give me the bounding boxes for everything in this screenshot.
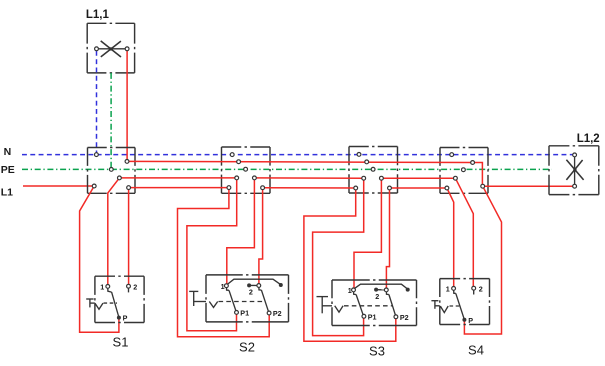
svg-text:P2: P2 <box>273 309 282 318</box>
terminal J2 traveler top out <box>253 176 257 180</box>
lamp L1,1 outline box <box>87 23 134 73</box>
S4 contact stub 2 <box>473 290 475 294</box>
junction lamp L1,1 center <box>109 47 112 50</box>
wire J4 to lamp L1,2 (red) <box>483 185 573 187</box>
wire traveler top J3-J4 <box>381 177 455 179</box>
S2 lever 2 <box>261 290 268 311</box>
S3 lever 2 <box>389 295 396 316</box>
svg-text:S3: S3 <box>369 344 385 359</box>
wire traveler top J1-J2 <box>119 177 236 179</box>
terminal S3-2 <box>384 288 388 292</box>
S2 contact dot right <box>279 283 283 287</box>
terminal J2 N <box>230 153 234 157</box>
terminal J1 N <box>95 153 99 157</box>
wire traveler top J2-J3 <box>254 177 363 179</box>
terminal J2 traveler bottom out <box>261 186 265 190</box>
terminal J3 lamp line <box>365 160 369 164</box>
svg-text:2: 2 <box>249 288 253 297</box>
svg-text:1: 1 <box>446 285 450 294</box>
wire J1 to S1 terminal 2 <box>128 188 130 286</box>
wire J2 to S2 terminal 2 <box>259 188 263 286</box>
S4 manual actuator <box>431 300 438 302</box>
S1 manual actuator <box>86 298 93 300</box>
wire traveler bottom J2-J3 <box>263 187 356 189</box>
S2 bridge contact wire <box>228 279 281 285</box>
S3 contact dot right <box>406 288 410 292</box>
S4 spring notch <box>440 306 448 313</box>
wire switched-line drop from lamp L1,1 (red) <box>126 51 128 160</box>
svg-text:2: 2 <box>133 283 137 292</box>
terminal J3 traveler bottom out <box>388 186 392 190</box>
terminal S3-1 <box>352 288 356 292</box>
S4 lever <box>456 293 464 318</box>
wire lamp L1,1 internal link <box>98 48 125 50</box>
wire S4 terminal P to J4 lamp node <box>464 186 501 334</box>
terminal J3 traveler bottom in <box>354 186 358 190</box>
terminal S1-P <box>117 316 121 320</box>
terminal J3 PE <box>371 167 375 171</box>
switch S1 outline box <box>95 276 144 322</box>
svg-text:P: P <box>468 316 473 325</box>
terminal J3 N <box>357 153 361 157</box>
junction box J3 <box>349 147 398 194</box>
svg-text:L1: L1 <box>1 187 13 199</box>
svg-text:1: 1 <box>100 283 104 292</box>
wire lamp feed line J1-J4 (red) <box>127 161 473 162</box>
switch S2 outline box <box>206 275 289 322</box>
S3 manual actuator <box>317 296 329 298</box>
S1 actuator link <box>90 302 95 304</box>
S3 contact stub 1 <box>354 292 357 295</box>
svg-text:2: 2 <box>479 284 483 293</box>
net L1 bus (red) <box>23 185 94 187</box>
terminal S1-2 <box>127 284 131 288</box>
terminal J4 traveler top in <box>454 176 458 180</box>
svg-text:P: P <box>123 314 128 323</box>
S2 link dot2 wire <box>250 284 258 286</box>
terminal S3-P1 <box>362 314 366 318</box>
svg-text:PE: PE <box>1 164 15 176</box>
net N bus (blue dashed) <box>22 154 573 156</box>
switch S3 outline box <box>332 280 417 326</box>
lamp L1,1 cross symbol <box>101 41 121 57</box>
lamp L1,2 cross symbol <box>566 160 583 180</box>
junction box J2 <box>222 147 271 193</box>
svg-text:S4: S4 <box>468 342 484 357</box>
terminal S1-1 <box>106 285 110 289</box>
terminal J2 traveler top in <box>235 176 239 180</box>
terminal J3 traveler top in <box>362 176 366 180</box>
wire traveler bottom J3-J4 <box>390 187 447 189</box>
S2 lever 1 <box>229 290 236 311</box>
S1 mechanical link dashed <box>104 302 118 304</box>
S3 mechanical link dashed <box>344 305 392 307</box>
terminal J1 traveler bottom <box>127 186 131 190</box>
terminal S2-P2 <box>267 311 271 315</box>
S3 link dot2 wire <box>377 289 384 291</box>
terminal S4-2 <box>472 286 476 290</box>
S3 actuator link <box>322 305 332 307</box>
svg-text:L1,2: L1,2 <box>577 133 600 145</box>
svg-text:N: N <box>4 146 12 158</box>
svg-text:L1,1: L1,1 <box>86 9 110 21</box>
wire J4 to S4 terminal 1 <box>447 188 454 288</box>
S4 mechanical link dashed <box>450 305 460 307</box>
terminal S4-P <box>462 318 466 322</box>
wire J4 lamp-line down link <box>473 163 483 187</box>
terminal J4 N <box>450 153 454 157</box>
S3 bridge contact wire <box>355 284 408 289</box>
S4 contact stub 1 <box>454 290 456 293</box>
S2 contact stub 1 <box>227 288 230 291</box>
svg-text:2: 2 <box>375 292 379 301</box>
terminal S4-1 <box>452 287 456 291</box>
terminal J2 PE <box>244 167 248 171</box>
terminal J2 lamp line <box>237 160 241 164</box>
svg-text:S2: S2 <box>239 340 255 355</box>
terminal S3-P2 <box>394 315 398 319</box>
terminal lamp L1,1 right <box>125 47 129 51</box>
wire J2 to S2 terminal P1 <box>187 178 237 331</box>
terminal J1 traveler top <box>118 176 122 180</box>
wire J1 to S1 terminal 1 <box>108 178 120 286</box>
wire J2 to S2 terminal P2 <box>178 188 270 337</box>
terminal J4 traveler bottom in <box>445 186 449 190</box>
S1 contact stub 2 <box>128 288 130 292</box>
svg-text:P2: P2 <box>400 313 409 322</box>
terminal S2-P1 <box>235 311 239 315</box>
S1 spring notch <box>95 303 103 309</box>
terminal J2 traveler bottom in <box>227 186 231 190</box>
wire PE drop from lamp L1,1 (green dash-dot) <box>110 73 112 168</box>
wire J3 to S3 terminal P1 <box>313 178 364 335</box>
terminal J3 traveler top out <box>380 176 384 180</box>
terminal lamp L1,1 left <box>95 47 99 51</box>
S3 spring notch <box>335 306 343 312</box>
S2 contact stub 2 <box>259 287 262 290</box>
S2 contact dot 2 <box>247 283 251 287</box>
S2 mechanical link dashed <box>219 301 265 303</box>
switch S4 outline box <box>440 279 490 325</box>
svg-text:P1: P1 <box>368 313 377 322</box>
terminal J4 switched line out <box>481 184 485 188</box>
junction lamp L1,2 center <box>573 168 576 171</box>
S2 spring notch <box>209 302 217 308</box>
wire N drop from lamp L1,1 (blue dashed) <box>96 51 98 153</box>
terminal J4 PE <box>462 168 466 172</box>
S1 contact stub 1 <box>108 288 112 292</box>
terminal S2-2 <box>257 284 261 288</box>
wire J3 to S3 terminal P2 <box>304 188 396 341</box>
S1 lever <box>112 292 119 316</box>
terminal S2-1 <box>225 284 229 288</box>
wire J2 to S2 terminal 1 <box>227 178 255 286</box>
junction box J1 <box>88 148 136 194</box>
wire J3 to S3 terminal 1 <box>354 178 381 290</box>
S2 manual actuator <box>189 290 198 292</box>
wire J3 to S3 terminal 2 <box>386 188 389 290</box>
wire traveler bottom J1-J2 <box>129 187 229 189</box>
svg-text:P1: P1 <box>240 309 249 318</box>
terminal lamp L1,2 bottom <box>573 184 577 188</box>
wire L1 phase J1 to S1 terminal P <box>80 186 119 332</box>
S3 contact stub 2 <box>386 292 389 295</box>
S2 actuator link <box>194 301 206 303</box>
S3 lever 1 <box>356 295 363 315</box>
terminal J1 lamp line <box>125 160 129 164</box>
wire J4 to S4 terminal 2 <box>455 178 473 288</box>
S4 actuator link <box>435 305 440 307</box>
S3 contact dot 2 <box>374 288 378 292</box>
net PE bus (green dash-dot) <box>22 168 552 170</box>
svg-text:S1: S1 <box>113 335 129 350</box>
junction box J4 <box>440 148 488 194</box>
terminal J1 PE <box>109 168 113 172</box>
terminal J4 lamp line <box>471 161 475 165</box>
lamp L1,2 outline box <box>549 146 599 195</box>
terminal lamp L1,2 top <box>573 153 577 157</box>
wire lamp L1,2 internal link <box>574 157 576 184</box>
terminal J1 L1 in <box>92 184 96 188</box>
